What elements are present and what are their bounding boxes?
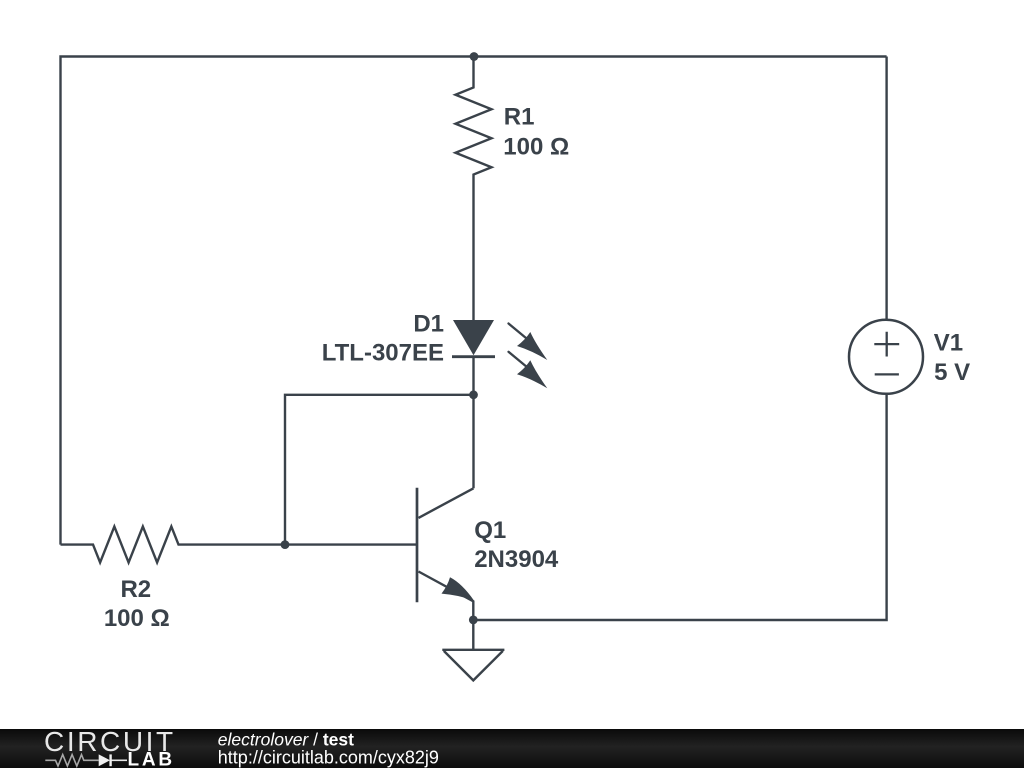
transistor Q1 base bar: [416, 488, 419, 603]
LED light arrow 2: [509, 352, 548, 389]
voltage source V1 circle: [849, 320, 923, 394]
wire top and left side of loop: [61, 57, 887, 545]
logo resistor-diode glyph: [45, 755, 127, 766]
svg-text:100 Ω: 100 Ω: [503, 134, 569, 161]
svg-text:LTL-307EE: LTL-307EE: [322, 340, 444, 367]
svg-text:V1: V1: [934, 329, 963, 356]
transistor Q1 emitter diagonal: [419, 572, 474, 620]
wire right side upper (top rail to V1 plus terminal): [885, 57, 887, 321]
node dot below LED: [469, 390, 478, 399]
node dot top rail: [470, 52, 479, 61]
transistor Q1 collector diagonal: [419, 488, 474, 518]
resistor R1: [456, 57, 492, 321]
svg-text:5 V: 5 V: [934, 359, 970, 386]
svg-text:R2: R2: [120, 576, 151, 603]
node dot base branch: [281, 540, 290, 549]
svg-text:100 Ω: 100 Ω: [104, 605, 170, 632]
ground bar: [442, 649, 504, 651]
wire LED cathode to collector elbow: [472, 357, 474, 489]
node dot emitter/ground: [469, 616, 478, 625]
svg-text:R1: R1: [504, 104, 535, 131]
ground triangle: [444, 651, 503, 681]
svg-text:LAB: LAB: [128, 750, 175, 768]
logo diode cathode bar: [109, 754, 111, 766]
svg-text:http://circuitlab.com/cyx82j9: http://circuitlab.com/cyx82j9: [218, 747, 439, 767]
wire right side lower and bottom rail (V1 minus to emitter node): [473, 394, 886, 620]
LED D1 triangle: [453, 320, 494, 355]
svg-text:2N3904: 2N3904: [474, 546, 559, 573]
logo diode triangle: [99, 754, 110, 766]
svg-text:Q1: Q1: [474, 517, 506, 544]
wire node below LED to transistor base branch: [285, 395, 474, 545]
LED light arrow 1: [509, 324, 548, 361]
V1 plus sign: [874, 332, 899, 357]
LED D1 cathode bar: [452, 355, 495, 358]
transistor Q1 emitter arrowhead: [442, 577, 475, 600]
V1 minus sign: [875, 373, 899, 375]
svg-text:D1: D1: [413, 311, 444, 338]
ground lead: [472, 620, 474, 650]
resistor R2: [61, 527, 418, 563]
